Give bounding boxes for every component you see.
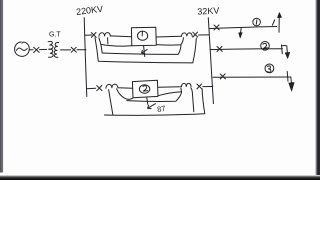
svg-text:87: 87 [157, 104, 167, 114]
svg-text:G.T: G.T [49, 32, 61, 39]
svg-text:32KV: 32KV [197, 5, 220, 16]
